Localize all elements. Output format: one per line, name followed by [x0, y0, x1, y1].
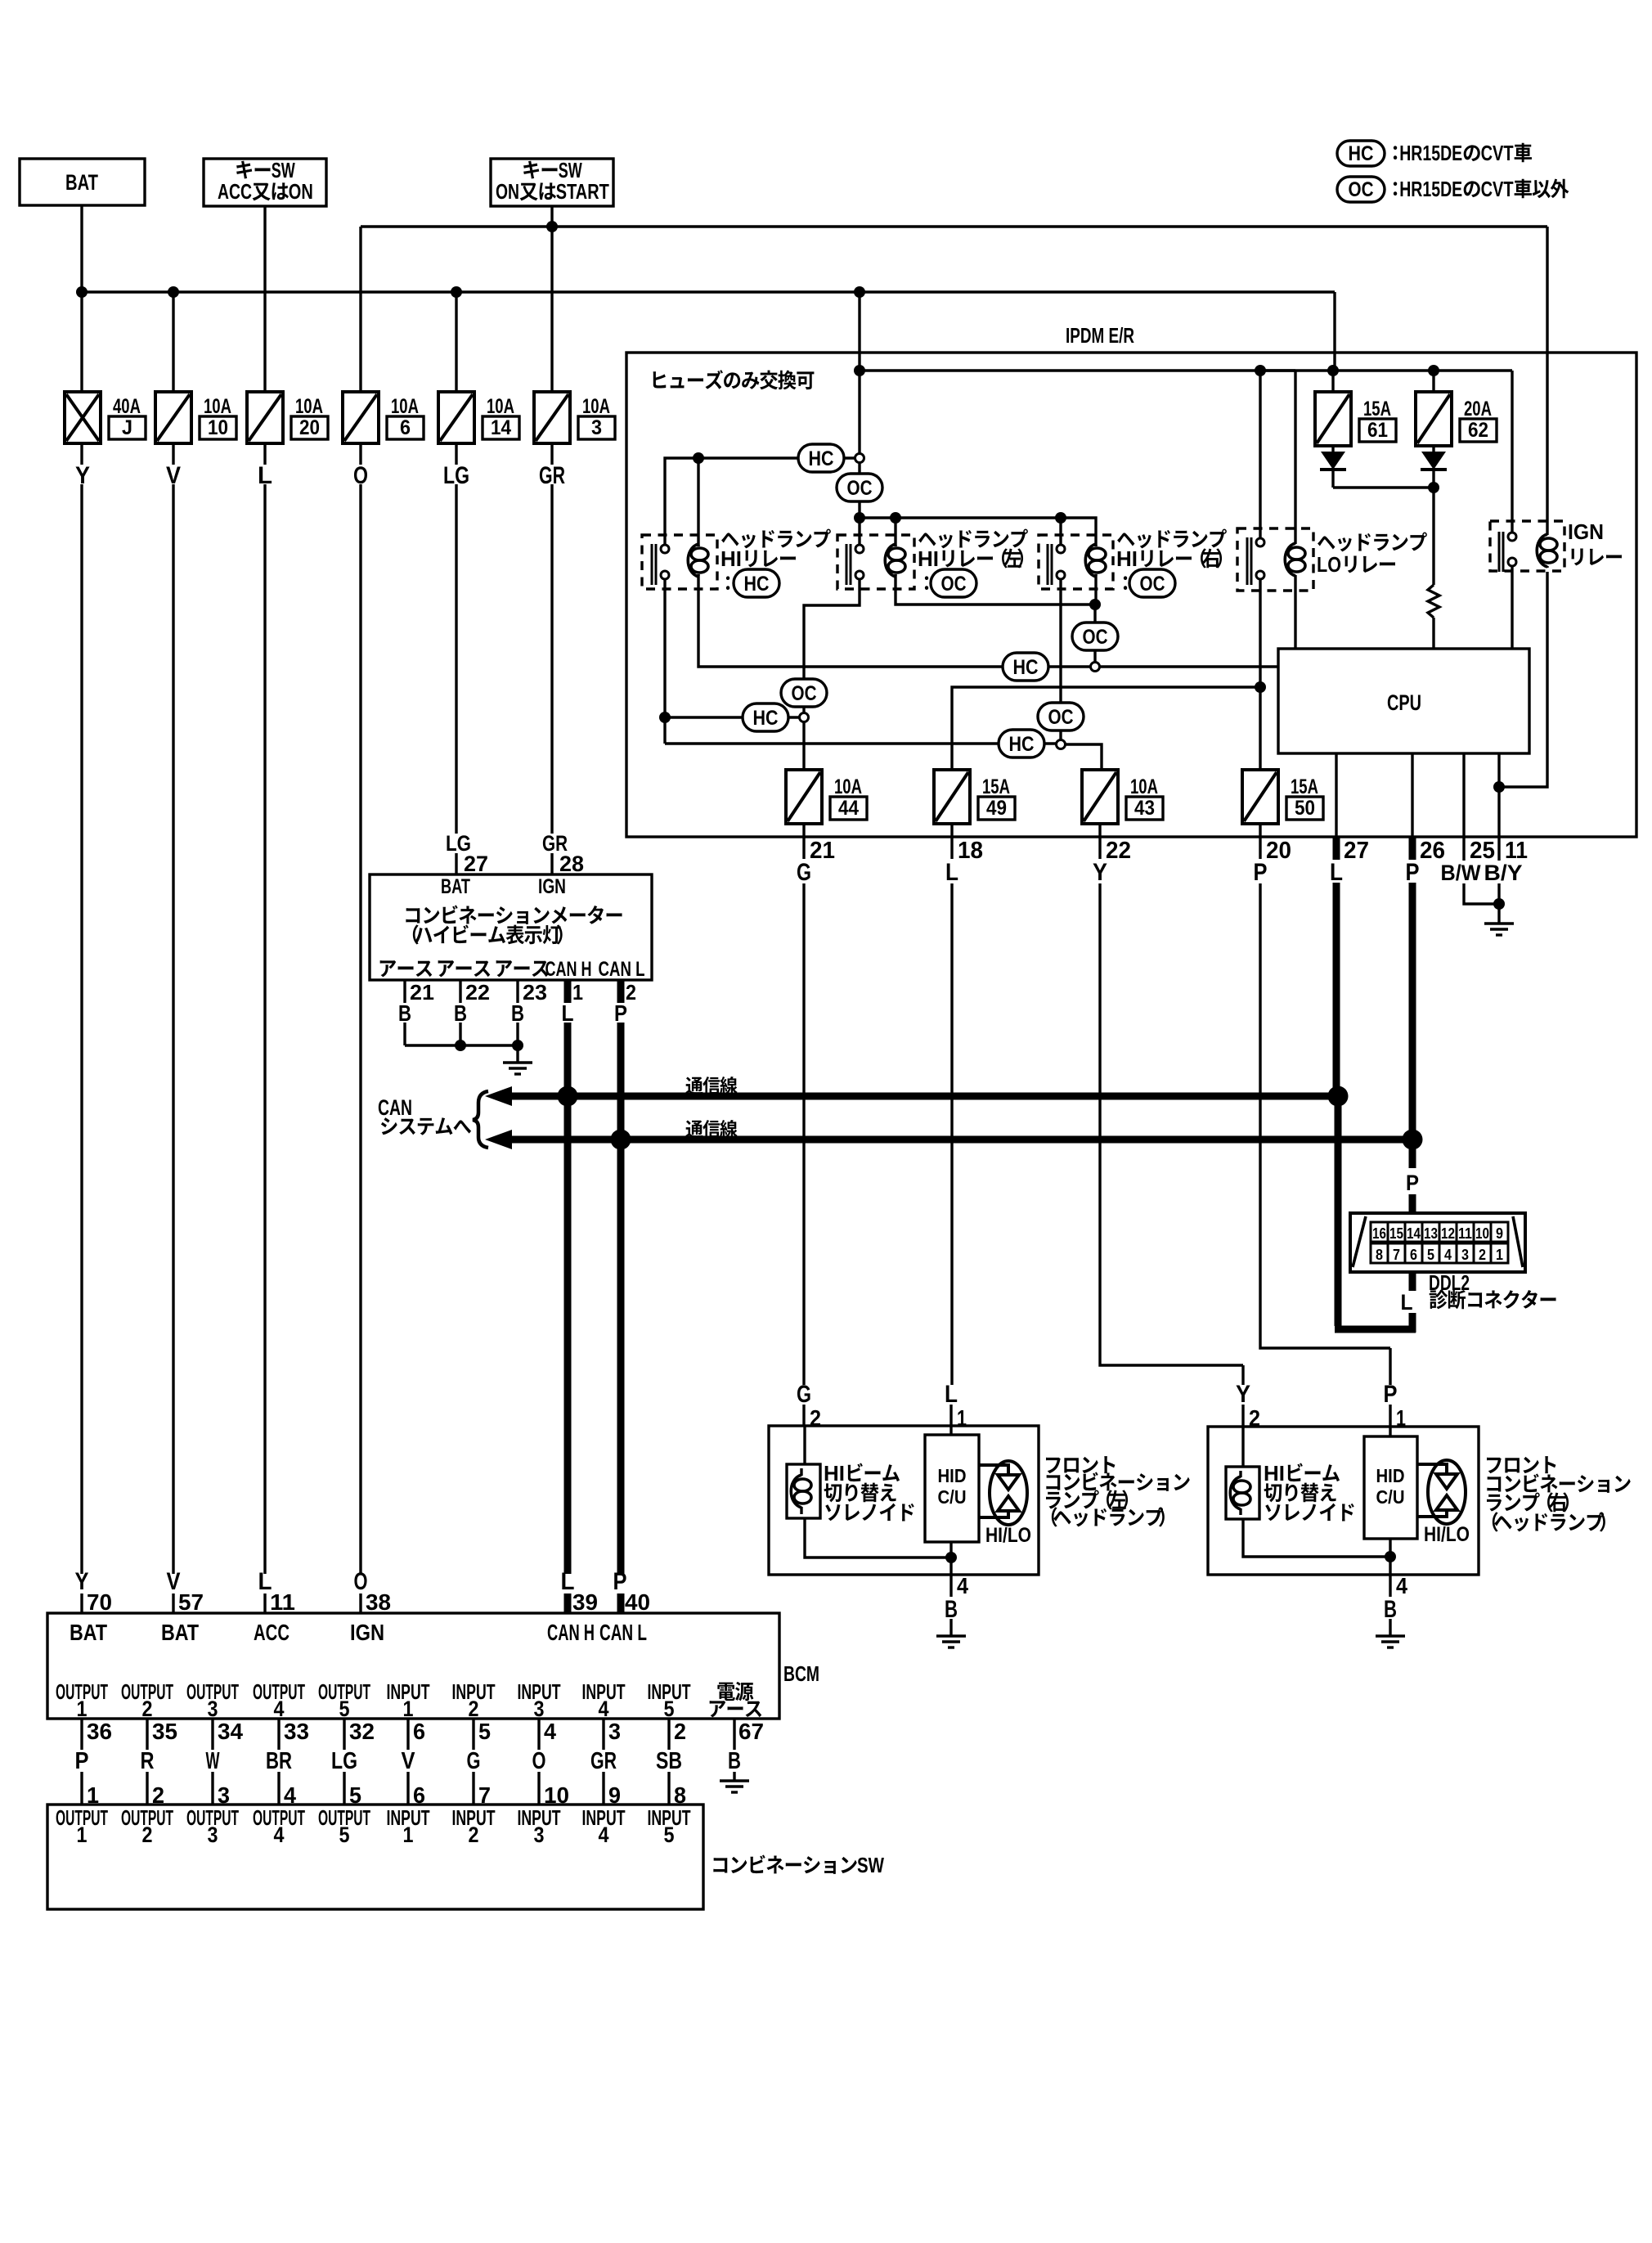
fuse 10A 43 [1082, 770, 1163, 824]
ground combination meter [503, 1063, 532, 1074]
svg-text:57: 57 [178, 1589, 204, 1615]
wire inner feed down through HC node [858, 371, 860, 453]
label wire color Y [75, 462, 90, 489]
svg-text:START: START [556, 179, 609, 204]
junction dot inner feed at LO relay [1255, 365, 1266, 376]
svg-text:OC: OC [1048, 706, 1074, 729]
wire lamp left pin 4 to ground [945, 1573, 968, 1636]
label CAN system to [378, 1095, 471, 1135]
svg-text:1: 1 [572, 980, 583, 1005]
label headlamp HI relay right [1116, 529, 1227, 597]
labels at right lamp pins [1236, 1381, 1406, 1431]
svg-text:HC: HC [1009, 733, 1035, 756]
wire solenoid right to lamp ground node [1243, 1519, 1390, 1557]
svg-text:2: 2 [469, 1697, 479, 1721]
wire thick CAN L pin 26 down [1409, 883, 1416, 1139]
HI LO lamp left [979, 1461, 1031, 1547]
junction dot meter ground 22 [455, 1040, 466, 1051]
resistor in IPDM [1428, 585, 1439, 618]
svg-text:G: G [797, 1381, 811, 1408]
svg-text:HID: HID [1376, 1465, 1405, 1486]
svg-text:11: 11 [270, 1589, 295, 1615]
label headlamp HI relay [721, 529, 831, 597]
svg-text:50: 50 [1295, 797, 1315, 820]
wire inner feed to IGN relay contact [1511, 371, 1513, 533]
label BCM [783, 1661, 819, 1686]
svg-text:B: B [728, 1748, 741, 1774]
BCM bottom pins wires [75, 1719, 687, 1808]
svg-text:6: 6 [1410, 1247, 1417, 1263]
svg-text:P: P [1254, 859, 1268, 886]
key switch box ON or START [491, 158, 613, 206]
svg-text:3: 3 [608, 1719, 621, 1744]
wire OC oval to fuse 43 node [1059, 730, 1062, 739]
wire bus down to fuse 10 [172, 292, 174, 392]
wire bus to IPDM inner feed line left [858, 292, 860, 371]
junction dot bus at IPDM feed [854, 286, 865, 298]
wire OC oval to fuse 44 node [802, 707, 805, 712]
svg-text:OC: OC [847, 477, 873, 500]
HID control unit right [1364, 1436, 1417, 1539]
svg-text:HID: HID [938, 1465, 967, 1486]
key switch box ACC or ON [204, 158, 326, 206]
svg-text:10: 10 [1475, 1225, 1489, 1242]
svg-text:P: P [1406, 1171, 1419, 1195]
svg-text:IGN: IGN [350, 1620, 384, 1645]
wire LO relay contact down to fuse 50 [1259, 579, 1261, 770]
svg-text:CVT: CVT [1481, 177, 1514, 201]
svg-text:10A: 10A [1130, 775, 1158, 798]
wire HI relay R contact down (OC) [1059, 579, 1062, 703]
svg-text:5: 5 [664, 1823, 675, 1847]
svg-text:ACC: ACC [218, 179, 252, 204]
svg-text:CVT: CVT [1481, 141, 1514, 165]
svg-text:HI: HI [918, 546, 939, 571]
wire B/W to ground node [1464, 901, 1499, 904]
svg-text:G: G [467, 1748, 481, 1774]
legend OC oval : HR15DE CVT and others [1337, 177, 1569, 202]
junction dot lamp right ground [1385, 1551, 1396, 1562]
svg-text:W: W [206, 1748, 220, 1774]
svg-text:O: O [532, 1748, 546, 1774]
combination switch internal labels [56, 1805, 691, 1847]
svg-text:67: 67 [738, 1719, 764, 1744]
wire HC branch to fuse 44 node [665, 716, 799, 718]
svg-text:CAN H: CAN H [547, 1620, 595, 1645]
svg-text:20: 20 [1266, 838, 1291, 864]
junction dot lamp left ground [945, 1552, 957, 1563]
svg-text:12: 12 [1441, 1225, 1455, 1242]
wire bus down to fuse 14 [455, 292, 457, 392]
svg-text:8: 8 [1376, 1247, 1383, 1263]
svg-text:20A: 20A [1464, 398, 1492, 420]
svg-text:4: 4 [274, 1697, 285, 1721]
svg-text:4: 4 [544, 1719, 556, 1744]
condition oval HC before fuse 43 [999, 730, 1044, 757]
svg-text:BR: BR [266, 1748, 292, 1774]
wire CAN L thick meter pin 2 to BCM pin 40 [617, 980, 625, 1613]
svg-text:9: 9 [1496, 1225, 1503, 1242]
label diagnostic connector [1430, 1290, 1556, 1310]
svg-text:18: 18 [958, 838, 983, 864]
wire thick CAN L down to DDL2 pin 14 [1406, 1139, 1419, 1213]
relay headlamp HI left (OC) [837, 535, 914, 589]
wire L fuse 20 to BCM pin 11 [263, 443, 266, 1613]
svg-text:34: 34 [218, 1719, 243, 1744]
svg-text:22: 22 [1106, 838, 1131, 864]
svg-text:HC: HC [1013, 656, 1039, 679]
wire lamp right pin 4 to ground [1384, 1573, 1407, 1636]
svg-text:SB: SB [656, 1748, 682, 1774]
svg-text:4: 4 [274, 1823, 285, 1847]
svg-text:HI: HI [721, 546, 742, 571]
wire CPU pin 27 out [1335, 753, 1337, 860]
svg-text:2: 2 [142, 1823, 153, 1847]
meter ground pins wires [405, 980, 518, 1045]
wire HI relay contact down (HC) with branches [663, 579, 666, 744]
junction dot inner feed at fuse 61 [1327, 365, 1339, 376]
label front combination lamp right [1487, 1456, 1631, 1531]
junction dot bus at fuse 10 [168, 286, 179, 298]
svg-text:10A: 10A [391, 395, 419, 418]
wire node to OC oval [858, 463, 860, 518]
junction dot LO contact to fuse 49 line [1255, 681, 1266, 693]
BCM internal top labels [70, 1620, 647, 1645]
wire bus corner down to IPDM inner feed line right [1333, 292, 1336, 371]
svg-text:33: 33 [284, 1719, 309, 1744]
meter pins bottom labels [398, 980, 636, 1026]
condition oval OC before fuse 43 [1038, 703, 1084, 730]
BCM top pin labels [75, 1568, 651, 1615]
relay headlamp HI (HC) [642, 535, 717, 589]
label headlamp HI relay left [918, 529, 1028, 597]
wire node to fuse 43 [1066, 744, 1102, 770]
wire HID left down [949, 1542, 952, 1575]
wire HC branch to fuse 43 node [665, 742, 1056, 744]
node circle HC tap [855, 454, 864, 463]
junction dot inner feed at fuse 62 [1428, 365, 1439, 376]
svg-text:HI/LO: HI/LO [985, 1524, 1031, 1547]
svg-text:CAN H: CAN H [545, 958, 592, 981]
svg-text:C/U: C/U [938, 1486, 967, 1508]
svg-text:44: 44 [838, 797, 859, 820]
wire feed to HI relay R contact [1059, 518, 1062, 544]
svg-text:5: 5 [478, 1719, 491, 1744]
wire HID right down [1389, 1539, 1391, 1575]
label communication line 2 [685, 1120, 737, 1138]
IPDM inner feed line [860, 369, 1512, 371]
svg-text:B: B [1384, 1596, 1397, 1623]
wire inner feed down to LO relay coil [1260, 371, 1295, 532]
front combination lamp right box [1208, 1427, 1479, 1575]
fuse 40A J [65, 392, 146, 443]
wire LO contact to fuse 49 [952, 687, 1260, 770]
svg-text:OC: OC [941, 573, 967, 596]
wire ignition line down to IGN relay coil [1546, 227, 1548, 533]
wire LG fuse 14 to meter pin 27 [455, 443, 457, 874]
junction dot coils common [1089, 599, 1101, 610]
svg-text:P: P [1406, 859, 1420, 886]
BCM internal bottom labels [56, 1679, 761, 1721]
svg-text:IPDM E/R: IPDM E/R [1066, 323, 1134, 348]
svg-text:B/W: B/W [1441, 861, 1481, 885]
svg-text:14: 14 [491, 416, 511, 439]
fuse 15A 50 [1242, 770, 1323, 824]
wire O fuse 6 to BCM pin 38 [359, 443, 361, 1613]
wire HC bypass to HI relay [665, 458, 855, 544]
fuse 10A 6 [343, 392, 424, 443]
svg-text:1: 1 [403, 1823, 414, 1847]
wire down to resistor [1432, 488, 1434, 585]
combination meter box [370, 874, 652, 980]
fuse 10A 20 [247, 392, 328, 443]
wire inner feed down to LO relay contact [1259, 371, 1261, 538]
wire V fuse 10 to BCM pin 57 [172, 443, 174, 1613]
wire HI relay coil feed down [697, 458, 699, 546]
DDL2 diagnostic connector [1350, 1213, 1525, 1272]
svg-text:L: L [1401, 1290, 1413, 1315]
svg-text:HR15DE: HR15DE [1399, 177, 1462, 201]
wire fuse 50 to pin 20 [1259, 824, 1261, 859]
wire fuse 44 to pin 21 [802, 824, 805, 859]
svg-text:CAN L: CAN L [599, 1620, 647, 1645]
svg-text:LO: LO [1317, 552, 1341, 577]
svg-text:L: L [562, 1000, 574, 1026]
svg-text:L: L [1330, 859, 1343, 886]
battery bus horizontal wire [82, 290, 1335, 293]
condition oval OC on coils common [1072, 623, 1118, 650]
wire GR fuse 3 to meter pin 28 [550, 443, 553, 874]
wire LO relay coil to CPU [1294, 587, 1296, 649]
fuse 15A 61 [1315, 392, 1396, 446]
wire G pin 21 to left lamp solenoid [804, 883, 805, 1464]
wire CPU pin 26 out [1411, 753, 1413, 860]
junction dot CAN L meter [611, 1130, 631, 1150]
junction dot bus at fuse 14 [451, 286, 462, 298]
IPDM E/R block box [626, 323, 1636, 837]
svg-text:3: 3 [534, 1697, 545, 1721]
wire ignition line down to fuse 6 [359, 227, 361, 392]
meter pin labels top [446, 831, 584, 876]
diode under fuse 62 [1421, 446, 1447, 488]
svg-text:38: 38 [366, 1589, 391, 1615]
svg-text:B: B [511, 1000, 524, 1026]
svg-text:P: P [1384, 1381, 1398, 1408]
svg-text:R: R [141, 1748, 155, 1774]
condition oval HC on bypass [798, 444, 844, 472]
junction dot relay feed left [854, 512, 865, 524]
svg-text:V: V [402, 1748, 416, 1774]
svg-text:G: G [797, 859, 811, 886]
wire HI L and R coils common (OC path) [896, 574, 1096, 623]
junction dot HI relay L coil [890, 512, 901, 524]
label fuses only replaceable [653, 370, 815, 389]
wire diodes junction [1333, 486, 1434, 488]
svg-text:2: 2 [469, 1823, 479, 1847]
svg-text:HC: HC [744, 573, 770, 596]
svg-text:7: 7 [1393, 1247, 1400, 1263]
labels at left lamp pins [797, 1381, 967, 1431]
svg-text:HI: HI [1264, 1461, 1285, 1486]
svg-text:P: P [75, 1748, 89, 1774]
BCM box [47, 1613, 779, 1719]
wire OC oval to node circle [1093, 650, 1096, 662]
svg-text:ON: ON [496, 179, 519, 204]
node circle fuse 43 feed [1057, 740, 1066, 749]
svg-text:HC: HC [809, 447, 834, 470]
label wire color LG [443, 462, 469, 489]
svg-text:2: 2 [142, 1697, 153, 1721]
svg-text:CAN L: CAN L [599, 958, 645, 981]
label front combination lamp left [1046, 1456, 1190, 1526]
label headlamp LO relay [1317, 533, 1427, 577]
wire solenoid left to lamp ground node [805, 1518, 951, 1558]
node circle coil return [1091, 663, 1100, 672]
fuse 10A 44 [786, 770, 867, 824]
svg-text:ON: ON [289, 179, 313, 204]
junction dot HI relay R contact [1055, 512, 1066, 524]
svg-text:35: 35 [152, 1719, 177, 1744]
CPU box [1278, 649, 1529, 753]
svg-text:L: L [945, 1381, 958, 1408]
condition oval OC before fuse 44 [781, 679, 827, 707]
svg-text:40A: 40A [113, 395, 141, 418]
CAN L communication line thick [485, 1130, 1412, 1149]
svg-text:HI/LO: HI/LO [1424, 1523, 1470, 1546]
svg-text:13: 13 [1424, 1225, 1438, 1242]
HI beam solenoid left [787, 1464, 820, 1518]
relay feed line to HI relays left right [860, 518, 1096, 546]
svg-text:16: 16 [1372, 1225, 1386, 1242]
label IGN relay [1568, 519, 1622, 565]
svg-text:4: 4 [957, 1573, 968, 1598]
junction dot HI contact branch [659, 712, 671, 723]
svg-text:6: 6 [400, 416, 411, 439]
svg-text:61: 61 [1367, 419, 1388, 442]
power source box BAT [20, 159, 145, 205]
wire to meter ground symbol [516, 1045, 518, 1063]
wire IGN relay contact to CPU [1511, 566, 1513, 649]
svg-text:39: 39 [572, 1589, 598, 1615]
svg-text:HC: HC [753, 707, 779, 730]
wire CPU pin 11 B/Y out [1497, 753, 1500, 924]
svg-text:27: 27 [464, 852, 488, 876]
svg-text:5: 5 [339, 1697, 350, 1721]
pin labels IPDM bottom [797, 838, 1528, 886]
svg-text:HI: HI [824, 1461, 845, 1486]
ground lamp left [936, 1636, 966, 1647]
svg-text:1: 1 [403, 1697, 414, 1721]
svg-text:32: 32 [349, 1719, 375, 1744]
wire fuse 43 to pin 22 [1098, 824, 1101, 859]
svg-text:2: 2 [1479, 1247, 1486, 1263]
svg-text:3: 3 [208, 1697, 218, 1721]
brace CAN system [473, 1091, 488, 1148]
relay headlamp LO [1237, 528, 1313, 591]
fuse 10A 14 [438, 392, 519, 443]
HI LO lamp right [1417, 1460, 1470, 1546]
wire Y pin 22 to right lamp solenoid [1100, 883, 1243, 1467]
svg-text:10A: 10A [582, 395, 610, 418]
junction dot meter ground 23 [512, 1040, 523, 1051]
svg-text:49: 49 [986, 797, 1007, 820]
fuse 10A 3 [534, 392, 615, 443]
diode under fuse 61 [1320, 446, 1346, 488]
svg-text:B/Y: B/Y [1484, 861, 1523, 885]
label wire color GR [539, 462, 565, 489]
svg-text:20: 20 [299, 416, 320, 439]
junction dot diodes [1428, 482, 1439, 493]
svg-text:10: 10 [208, 416, 228, 439]
svg-text:HI: HI [1116, 546, 1138, 571]
wire L pin 18 to left lamp HID [951, 883, 952, 1435]
junction dot bus at BAT [76, 286, 88, 298]
svg-text:10A: 10A [204, 395, 231, 418]
label DDL2 [1429, 1270, 1470, 1295]
fuse 10A 10 [155, 392, 236, 443]
junction dot CAN H meter [558, 1086, 578, 1107]
label wire color O [353, 462, 368, 489]
svg-text:B: B [398, 1000, 411, 1026]
junction dot CAN H IPDM [1328, 1086, 1349, 1107]
svg-text:43: 43 [1134, 797, 1155, 820]
svg-text:BAT: BAT [441, 875, 470, 898]
condition oval HC on coil return [1003, 653, 1048, 681]
label wire color L [258, 462, 272, 489]
svg-text:1: 1 [1496, 1247, 1503, 1263]
label wire color V [166, 462, 181, 489]
svg-text:J: J [122, 416, 132, 439]
label communication line 1 [685, 1077, 737, 1095]
combination switch box [47, 1805, 703, 1909]
node circle fuse 44 feed [800, 713, 809, 722]
wire CAN H thick meter pin 1 to BCM pin 39 [564, 980, 572, 1613]
svg-text:40: 40 [625, 1589, 650, 1615]
wire ACC switch down to fuse 20 [263, 206, 266, 392]
wire HI relay L contact to fuse 44 (OC) [804, 579, 860, 679]
svg-text:B: B [454, 1000, 467, 1026]
svg-text:11: 11 [1458, 1225, 1472, 1242]
svg-text:23: 23 [523, 980, 547, 1005]
ignition line horizontal wire [361, 225, 1547, 227]
svg-text:OC: OC [1140, 573, 1165, 596]
junction dot inner feed at x1051 [854, 365, 865, 376]
svg-text:3: 3 [591, 416, 602, 439]
wire meter grounds common [405, 1044, 518, 1046]
junction dot B/W B/Y ground [1493, 898, 1505, 910]
svg-text:P: P [614, 1000, 627, 1026]
BCM power ground pin 67 [728, 1719, 764, 1781]
svg-text:10A: 10A [834, 775, 862, 798]
svg-text:15A: 15A [982, 775, 1010, 798]
svg-text:22: 22 [465, 980, 490, 1005]
ground lamp right [1376, 1636, 1405, 1647]
svg-text:IGN: IGN [538, 875, 566, 898]
svg-text:1: 1 [77, 1823, 88, 1847]
svg-text:Y: Y [1093, 859, 1107, 886]
meter internal labels [380, 875, 645, 981]
svg-text:6: 6 [413, 1719, 425, 1744]
svg-text:C/U: C/U [1376, 1486, 1405, 1508]
HI beam solenoid right [1226, 1467, 1259, 1519]
junction dot IGN coil return [1493, 781, 1505, 793]
svg-text:SW: SW [857, 1853, 884, 1877]
fuse 15A 49 [934, 770, 1015, 824]
ground BCM [720, 1781, 749, 1792]
svg-text:BAT: BAT [70, 1620, 107, 1645]
HID control unit left [925, 1435, 979, 1542]
svg-text:OC: OC [792, 682, 817, 705]
